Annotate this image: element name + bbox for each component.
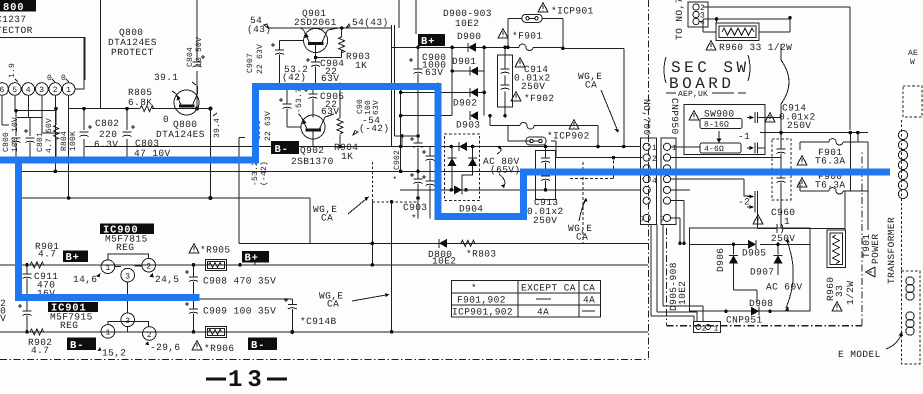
label -29.6 bbox=[145, 341, 181, 353]
connector CNP800 pin 2 bbox=[49, 83, 62, 96]
svg-text:5: 5 bbox=[12, 86, 17, 95]
svg-text:1: 1 bbox=[106, 329, 111, 338]
node B+ label box (right) bbox=[242, 251, 269, 265]
svg-text:4.7 50V: 4.7 50V bbox=[45, 118, 54, 153]
capacitor C913 bbox=[536, 145, 556, 200]
svg-text:-2: -2 bbox=[738, 197, 750, 208]
IC800 label box bbox=[0, 0, 36, 14]
label 54(43) right bbox=[346, 17, 389, 28]
capacitor C909 bbox=[185, 299, 198, 332]
svg-text:B+: B+ bbox=[245, 253, 259, 265]
label *F901 bbox=[512, 31, 543, 42]
wire hop arc bbox=[781, 44, 789, 118]
junction IC901 rail bbox=[25, 330, 195, 334]
label E MODEL bbox=[838, 332, 903, 361]
svg-text:-1: -1 bbox=[738, 131, 750, 142]
label *R803 bbox=[466, 249, 497, 260]
connector CNP950 body bbox=[661, 138, 676, 224]
label SEC SW BOARD bbox=[664, 55, 750, 93]
svg-text:54(43): 54(43) bbox=[352, 17, 389, 28]
capacitor C908 bbox=[185, 265, 198, 299]
svg-text:10E2: 10E2 bbox=[455, 18, 479, 29]
connector TO NO.7 body bbox=[688, 2, 708, 27]
svg-text:D902: D902 bbox=[453, 98, 477, 109]
svg-text:(-42): (-42) bbox=[260, 161, 269, 186]
svg-text:NO,700: NO,700 bbox=[641, 99, 652, 136]
svg-text:SW900: SW900 bbox=[704, 109, 735, 120]
label -2 bbox=[738, 197, 750, 208]
wire x391 tap bbox=[390, 202, 394, 334]
svg-text:1K: 1K bbox=[341, 151, 353, 162]
label 24.5 bbox=[149, 273, 179, 285]
svg-text:REG: REG bbox=[116, 242, 134, 253]
wire D905 row bbox=[690, 244, 811, 290]
label D907 bbox=[750, 267, 774, 278]
svg-text:1: 1 bbox=[652, 144, 657, 153]
IC901 label box bbox=[48, 302, 98, 315]
svg-text:Q902: Q902 bbox=[300, 145, 324, 156]
capacitor C904 bbox=[306, 58, 320, 85]
wire top edge pair x399 x416 bbox=[399, 0, 416, 34]
label 39.4 bbox=[213, 113, 222, 138]
connector CNP950 pin 4 bbox=[663, 176, 670, 183]
svg-text:ICP901,902: ICP901,902 bbox=[452, 307, 513, 318]
warning F901 right bbox=[797, 156, 807, 165]
switch SW900 enclosure bbox=[684, 105, 765, 155]
resistor R902 bbox=[30, 329, 44, 335]
label ND,700 (rotated) bbox=[641, 99, 652, 136]
wire x402 drop bbox=[395, 136, 419, 171]
svg-text:250V: 250V bbox=[521, 81, 545, 92]
capacitor C907 bbox=[271, 41, 304, 85]
label C909 100 35V bbox=[203, 306, 276, 317]
switch SW900 pole -1 bbox=[747, 112, 758, 154]
dashed box right edge bbox=[903, 86, 922, 117]
wire x372 tap bbox=[371, 162, 375, 267]
transistor Q901 bbox=[300, 26, 344, 59]
wire connector1 to box bbox=[75, 38, 84, 89]
node B+ label box (top) bbox=[418, 34, 445, 48]
label D905 bbox=[742, 248, 766, 259]
connector ND700 pin 1 bbox=[643, 143, 657, 153]
wire vertical x197 C804 bbox=[196, 0, 198, 109]
rectifier D905-908 box bbox=[690, 228, 811, 311]
svg-text:4.7: 4.7 bbox=[38, 249, 56, 260]
resistor R805 bbox=[140, 106, 154, 112]
wire vertical x100.5 from top bbox=[100, 0, 102, 109]
dashed edge line right bbox=[900, 120, 902, 271]
resistor R960 (top) bbox=[716, 23, 759, 41]
svg-text:T6.3A: T6.3A bbox=[815, 180, 846, 191]
IC900 label box bbox=[100, 224, 154, 237]
svg-text:C800: C800 bbox=[2, 132, 11, 152]
label 2SB1370 bbox=[291, 156, 334, 167]
svg-text:13: 13 bbox=[228, 367, 267, 394]
connector ND700 pin 4 bbox=[643, 176, 657, 187]
label C914 0.01x2 250V bbox=[514, 64, 551, 92]
svg-text:63V: 63V bbox=[321, 73, 339, 84]
wire pin stubs down bbox=[2, 95, 69, 198]
diode D800 bbox=[439, 239, 447, 248]
wire dashed x583 bbox=[570, 158, 614, 244]
connector CNP950 pin 1 bbox=[663, 143, 677, 153]
capacitor C905 bbox=[304, 85, 317, 104]
label Q800 DTA124ES (symbol) bbox=[156, 119, 205, 140]
label D906 (rotated) bbox=[715, 248, 726, 272]
label -54 (-42) bbox=[353, 115, 390, 135]
label AC 80V (65V) bbox=[483, 146, 521, 189]
svg-text:*: * bbox=[471, 283, 477, 294]
warning SW900 bbox=[689, 111, 699, 120]
label R902 4.7 bbox=[28, 337, 52, 356]
svg-text:0: 0 bbox=[47, 74, 52, 83]
svg-text:CNP951: CNP951 bbox=[726, 315, 763, 326]
connector ND700 pin 3 bbox=[643, 165, 650, 172]
label 14.6 bbox=[73, 273, 101, 285]
capacitor C914B bbox=[284, 298, 297, 332]
svg-text:2: 2 bbox=[147, 331, 152, 340]
svg-text:4A: 4A bbox=[537, 307, 549, 318]
svg-text:250V: 250V bbox=[771, 233, 795, 244]
wire Q901 top node y28 bbox=[268, 28, 348, 30]
label M5F7915 REG bbox=[50, 312, 93, 332]
svg-text:D906: D906 bbox=[715, 248, 726, 272]
diode D904 left up bbox=[448, 147, 457, 190]
svg-text:CA: CA bbox=[583, 283, 595, 294]
label Q901 bbox=[302, 8, 326, 19]
label *R906 bbox=[204, 343, 235, 354]
connector ND700 pin 6 bbox=[643, 197, 650, 204]
wire ND700 pin drops to CNP951 bbox=[651, 224, 703, 321]
svg-text:*: * bbox=[393, 175, 402, 180]
wire R804 C802 C803 drops bbox=[56, 109, 127, 160]
label T901 POWER (rotated) bbox=[861, 233, 881, 264]
node B- label box (IC901) bbox=[67, 338, 96, 352]
switch SW900 pole -2 bbox=[747, 191, 758, 213]
connector TO NO.7 pin 4 bbox=[693, 18, 705, 27]
label R960 33 1/2W bbox=[719, 42, 792, 53]
label *ICP902 bbox=[547, 131, 590, 142]
node B+ label box (IC900) bbox=[63, 250, 88, 264]
junction blue riser taps bbox=[14, 158, 22, 200]
wire rail y189.9 bridge bottom bbox=[400, 189, 640, 191]
label 250V (C960) bbox=[771, 233, 795, 244]
diode D904 bottom bbox=[450, 185, 468, 194]
protector ICP902 bbox=[508, 126, 642, 160]
svg-text:D907: D907 bbox=[750, 267, 774, 278]
fuse F901 bbox=[517, 44, 535, 50]
label Q902 bbox=[300, 145, 324, 156]
junction x418 bbox=[400, 46, 420, 200]
wire switch to fuse row bbox=[758, 118, 869, 148]
wire x400.7 vertical bbox=[399, 85, 452, 174]
resistor R906 (boxed) bbox=[206, 326, 227, 337]
label -53.2 (-42) rotated bbox=[251, 161, 269, 186]
svg-text:R804: R804 bbox=[60, 131, 69, 151]
svg-text:2: 2 bbox=[702, 325, 707, 334]
wire rail y158 (highlighted net, left) bbox=[0, 159, 255, 161]
svg-text:10E2: 10E2 bbox=[677, 281, 688, 305]
table fuse ratings box bbox=[451, 280, 600, 317]
border dash-dot bottom left board bbox=[0, 359, 649, 361]
diode D904 top bbox=[450, 142, 475, 151]
fuse F900 bbox=[800, 181, 868, 194]
svg-text:3: 3 bbox=[39, 86, 44, 95]
svg-text:*R905: *R905 bbox=[200, 245, 231, 256]
svg-text:14,6: 14,6 bbox=[73, 274, 97, 285]
svg-text:24,5: 24,5 bbox=[155, 274, 179, 285]
label 0 pin1 bbox=[61, 74, 69, 83]
warning C914 bbox=[515, 58, 525, 67]
svg-text:*F902: *F902 bbox=[524, 93, 555, 104]
label R903 1K bbox=[346, 51, 370, 71]
svg-text:C801: C801 bbox=[36, 132, 45, 152]
svg-text:AE: AE bbox=[908, 49, 918, 58]
fuse F902 bbox=[488, 114, 600, 148]
warning C960 bbox=[753, 215, 763, 224]
label 4-6ohm box bbox=[700, 143, 741, 154]
svg-text:POWER: POWER bbox=[870, 233, 881, 264]
svg-text:CA: CA bbox=[321, 213, 333, 224]
junction y198 x210 bbox=[208, 196, 212, 200]
transformer winding E model (upper) bbox=[906, 277, 914, 300]
label C908 470 35V bbox=[203, 276, 276, 287]
svg-text:DTA124ES: DTA124ES bbox=[156, 129, 205, 140]
diode D902 bbox=[470, 88, 478, 97]
svg-text:6V: 6V bbox=[0, 313, 6, 324]
svg-text:1.9: 1.9 bbox=[8, 63, 17, 78]
svg-text:2: 2 bbox=[146, 263, 151, 272]
svg-text:CA: CA bbox=[576, 232, 588, 243]
label 0 Q800 bbox=[163, 114, 169, 125]
regulator IC900 bbox=[101, 254, 155, 313]
label R904 1K bbox=[334, 142, 358, 162]
label R804 100K bbox=[60, 131, 78, 151]
label C912 (cut at edge) bbox=[0, 298, 6, 324]
svg-text:0: 0 bbox=[163, 114, 169, 125]
label C900 1000 63V bbox=[422, 52, 446, 78]
label M5F7815 REG bbox=[105, 234, 148, 254]
node B- label box (right) bbox=[248, 338, 277, 352]
label D903 bbox=[456, 120, 480, 131]
connector CNP800 pin 3 bbox=[36, 83, 49, 96]
svg-text:C908 470 35V: C908 470 35V bbox=[203, 276, 276, 287]
label D900 bbox=[457, 31, 481, 42]
svg-text:T6.3A: T6.3A bbox=[815, 156, 846, 167]
resistor R903 bbox=[339, 28, 345, 53]
diode D906 bbox=[729, 255, 738, 263]
wire under blue highlight (net B-up-right) bbox=[255, 85, 523, 219]
svg-text:4: 4 bbox=[652, 177, 657, 186]
label CNP951 bbox=[726, 315, 763, 326]
label 15.2 bbox=[98, 347, 127, 359]
label C914 0.01x2 250V (right) bbox=[779, 103, 816, 132]
svg-text:*ICP902: *ICP902 bbox=[547, 131, 590, 142]
connector CNP800 pin 4 bbox=[22, 83, 35, 96]
warning F901 bbox=[498, 29, 508, 38]
capacitor C800 bbox=[12, 138, 21, 160]
wire CNP950 pin outputs bbox=[671, 147, 781, 244]
regulator IC901 bbox=[101, 313, 156, 340]
wire D908 row bbox=[690, 290, 811, 311]
svg-text:D903: D903 bbox=[456, 120, 480, 131]
connector TO NO.7 pin 3 bbox=[693, 11, 705, 20]
connector ND700 pin 5 bbox=[643, 186, 650, 193]
svg-text:D904: D904 bbox=[459, 204, 483, 215]
svg-text:*: * bbox=[411, 213, 417, 224]
capacitor C914 right (x2) bbox=[772, 133, 791, 229]
svg-text:W: W bbox=[910, 58, 915, 67]
wire hop arc D905-908 bbox=[785, 238, 793, 311]
svg-text:EXCEPT CA: EXCEPT CA bbox=[521, 283, 576, 294]
diode D904 right up bbox=[462, 147, 477, 190]
svg-text:REG: REG bbox=[60, 320, 78, 331]
warning ICP901 bbox=[538, 3, 548, 12]
svg-text:CA: CA bbox=[585, 80, 597, 91]
capacitor C900 bbox=[409, 58, 423, 74]
label C802 220 6.3V bbox=[94, 118, 119, 150]
capacitor C960 bbox=[758, 212, 846, 233]
label C800 100 10V bbox=[2, 117, 20, 152]
label D905-908 10E2 (rotated) bbox=[668, 262, 688, 311]
label SW900 bbox=[704, 109, 735, 120]
junction top right bbox=[715, 16, 792, 21]
label D800 10E2 bbox=[428, 249, 456, 267]
wire right verticals bbox=[845, 133, 868, 230]
diode rails x452 x484 bbox=[450, 46, 486, 116]
svg-text:7: 7 bbox=[660, 216, 665, 225]
label D900-903 10E2 bbox=[443, 8, 492, 29]
label -53.7 bbox=[295, 88, 304, 113]
node B- label box bbox=[271, 141, 299, 156]
diode D905 bbox=[732, 240, 780, 249]
svg-text:(-42): (-42) bbox=[359, 123, 390, 134]
diode D903 bbox=[470, 111, 478, 120]
resistor R804 bbox=[54, 122, 59, 144]
label CNP950 (rotated) bbox=[669, 98, 680, 135]
svg-text:2SD2061: 2SD2061 bbox=[294, 17, 337, 28]
junction rails left bbox=[14, 107, 129, 162]
svg-text:*R803: *R803 bbox=[466, 249, 497, 260]
connector ND700 body bbox=[641, 138, 657, 224]
warning C914 right bbox=[765, 113, 775, 122]
capacitor C802 bbox=[80, 125, 93, 137]
svg-text:8-16Ω: 8-16Ω bbox=[704, 121, 729, 130]
svg-text:C903: C903 bbox=[403, 202, 427, 213]
label R901 4.7 bbox=[35, 241, 59, 260]
svg-text:PROTECT: PROTECT bbox=[111, 47, 154, 58]
svg-text:22 63V: 22 63V bbox=[256, 44, 265, 74]
label -1 bbox=[738, 131, 750, 142]
label Q800 DTA124ES PROTECT (title) bbox=[108, 27, 157, 58]
svg-text:D900: D900 bbox=[457, 31, 481, 42]
svg-text:F901,902: F901,902 bbox=[457, 295, 506, 306]
svg-text:AC 60V: AC 60V bbox=[766, 282, 803, 293]
wire C914B branch bbox=[199, 299, 292, 332]
label 0 pin2 bbox=[47, 74, 55, 83]
svg-text:(42): (42) bbox=[282, 72, 306, 83]
connector CNP800 pin 1 bbox=[62, 83, 75, 96]
svg-text:4-6Ω: 4-6Ω bbox=[704, 145, 724, 154]
label 8-16ohm box bbox=[700, 119, 742, 130]
label AEP,UK bbox=[666, 90, 746, 99]
table header labels bbox=[471, 283, 595, 294]
border dash-dot vertical x648.5 bbox=[648, 0, 650, 360]
arrow SW900 bbox=[717, 131, 722, 143]
svg-text:(65V): (65V) bbox=[490, 165, 521, 176]
capacitor C906 bbox=[279, 85, 301, 128]
resistor R905 (boxed) bbox=[206, 260, 227, 271]
svg-text:1: 1 bbox=[672, 144, 677, 153]
label 39.1 bbox=[154, 72, 196, 85]
table row F901,902 bbox=[457, 295, 595, 306]
svg-text:250V: 250V bbox=[787, 120, 811, 131]
label *ICP901 bbox=[551, 6, 594, 17]
label 1.9 bbox=[8, 63, 18, 82]
svg-text:3: 3 bbox=[125, 317, 130, 326]
svg-text:1: 1 bbox=[106, 264, 111, 273]
warning F900 bbox=[797, 178, 807, 187]
capacitor C803 bbox=[123, 125, 136, 137]
wire x310 drop bbox=[309, 198, 311, 243]
warning R905 bbox=[189, 244, 199, 253]
label TO NO,7 (rotated) bbox=[674, 0, 685, 40]
wire under blue (left riser and bottom run) bbox=[20, 160, 199, 297]
wire connector stub rails bbox=[16, 111, 55, 118]
svg-text:TRANSFORMER: TRANSFORMER bbox=[886, 217, 897, 284]
svg-text:1K: 1K bbox=[355, 60, 367, 71]
fuse F901 right bbox=[800, 139, 868, 150]
svg-text:-53.2: -53.2 bbox=[251, 161, 260, 186]
svg-text:*C914B: *C914B bbox=[300, 316, 337, 327]
connector ND700 pin 7 bbox=[640, 214, 650, 224]
junction Q800 emitter bbox=[195, 107, 212, 111]
label C913 0.01x2 250V bbox=[527, 197, 564, 226]
wire highlighted trace (blue) B- branch bbox=[15, 157, 200, 297]
border dash-dot transformer box bbox=[667, 150, 863, 326]
svg-text:2SB1370: 2SB1370 bbox=[291, 156, 334, 167]
label C902 (rotated) bbox=[393, 150, 402, 180]
label C803 47 10V bbox=[134, 138, 171, 159]
svg-text:250V: 250V bbox=[533, 215, 557, 226]
connector ND700 pin 2 bbox=[643, 154, 657, 164]
svg-text:10E2: 10E2 bbox=[432, 256, 456, 267]
junction blue wire top bbox=[314, 83, 440, 87]
capacitor C914 (x2 block) bbox=[498, 46, 513, 118]
label D901 bbox=[452, 56, 476, 67]
warning R906 bbox=[192, 341, 202, 350]
label C960 1 bbox=[771, 207, 795, 227]
svg-text:33: 33 bbox=[834, 285, 845, 297]
label C907 22 63V bbox=[246, 44, 265, 74]
svg-text:100K: 100K bbox=[69, 131, 78, 151]
svg-text:B+: B+ bbox=[66, 252, 80, 264]
svg-text:C804: C804 bbox=[186, 47, 195, 67]
svg-text:2: 2 bbox=[652, 155, 657, 164]
svg-text:*R906: *R906 bbox=[204, 343, 235, 354]
label WG,E CA (top) bbox=[578, 71, 619, 133]
table row ICP901,902 bbox=[452, 307, 595, 318]
label AC 60V bbox=[766, 282, 803, 293]
svg-text:C1237: C1237 bbox=[0, 14, 27, 25]
label TRANSFORMER (rotated) bbox=[886, 217, 897, 284]
label D902 bbox=[453, 98, 477, 109]
label WG,E CA (bottom) bbox=[319, 291, 390, 310]
junction fuse row bbox=[779, 131, 860, 135]
svg-text:D905: D905 bbox=[742, 248, 766, 259]
warning ICP902 bbox=[569, 120, 579, 129]
svg-text:AEP,UK: AEP,UK bbox=[678, 90, 708, 99]
